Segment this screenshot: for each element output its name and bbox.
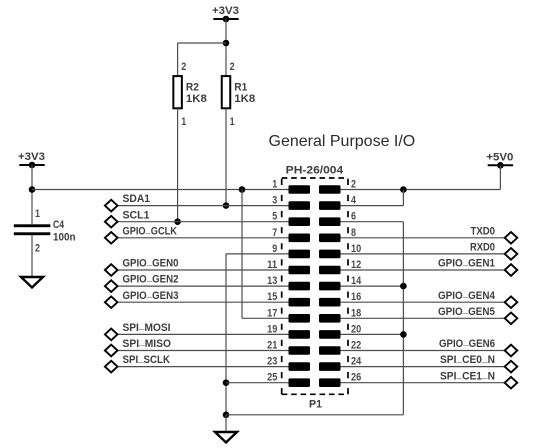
junction gnd bottom [223,412,230,419]
svg-text:15: 15 [267,291,277,303]
connector P1 dashed outline [282,178,348,394]
svg-text:1K8: 1K8 [186,93,207,105]
svg-text:2: 2 [35,243,40,255]
wire pin4 [341,205,404,207]
port diamond GPIO_GEN1 [505,264,518,276]
junction pin20 join [400,331,407,338]
svg-text:5: 5 [272,211,277,223]
svg-text:1: 1 [35,208,40,220]
svg-text:R1: R1 [234,82,247,94]
svg-text:18: 18 [351,307,361,319]
svg-text:PH-26/004: PH-26/004 [286,165,344,177]
svg-text:3: 3 [272,195,277,207]
wire R1 bottom to SDA1 [225,108,227,205]
port diamond GPIO_GCLK [105,232,118,244]
svg-text:SPI_SCLK: SPI_SCLK [123,352,171,366]
power symbol +3V3 top pin dot [223,16,230,23]
wire pin17 [242,317,289,319]
P1 pad pin 8 [319,234,341,243]
svg-text:8: 8 [351,227,356,239]
wire pin2 to +5V0 [341,189,501,191]
svg-text:14: 14 [351,275,361,287]
svg-text:SPI_CE1_N: SPI_CE1_N [440,368,495,382]
wire C4 to ground [31,235,33,277]
P1 pad pin 9 [289,250,311,259]
wire SDA1 [117,205,288,207]
wire pin9 gnd [226,253,289,255]
P1 pad pin 4 [319,201,341,210]
svg-text:24: 24 [351,356,361,368]
wire GPIO_GEN3 [117,301,288,303]
port diamond SPI_SCLK [105,361,118,373]
wire GPIO_GEN0 [117,269,288,271]
svg-text:17: 17 [267,307,277,319]
svg-text:General Purpose I/O: General Purpose I/O [269,133,416,150]
P1 pad pin 23 [289,362,311,371]
resistor R2 [173,61,207,128]
port diamond GPIO_GEN3 [105,296,118,308]
svg-text:9: 9 [272,243,277,255]
svg-text:P1: P1 [309,399,322,411]
port diamond GPIO_GEN2 [105,280,118,292]
P1 pad pin 26 [319,378,341,387]
port diamond SPI_MISO [105,345,118,357]
P1 pad pin 7 [289,234,311,243]
P1 pad pin 10 [319,250,341,259]
capacitor C4 [14,208,76,255]
wire row1 3V3 [32,189,289,191]
junction 3V3-row1 [29,186,36,193]
wire 3V3 riser to pin17 [241,190,243,319]
P1 pad pin 1 [289,185,311,194]
wire SPI_CE1_N [341,382,505,384]
P1 pad pin 20 [319,330,341,339]
P1 pad pin 16 [319,298,341,307]
wire GPIO_GEN6 [341,350,505,352]
wire GPIO_GEN2 [117,285,288,287]
svg-text:SDA1: SDA1 [123,193,151,205]
svg-text:1: 1 [272,179,277,191]
svg-text:16: 16 [351,291,361,303]
svg-text:1K8: 1K8 [234,93,255,105]
junction 5V pin4 join [400,186,407,193]
svg-text:21: 21 [267,340,277,352]
svg-text:20: 20 [351,323,361,335]
power symbol +5V0 bar [488,164,513,166]
junction pin25 gnd join [223,379,230,386]
port diamond SPI_MOSI [105,329,118,341]
wire +3V3 to R1 top [225,19,227,76]
P1 pad pin 12 [319,266,341,275]
wire pin14 gnd [341,285,404,287]
svg-text:SCL1: SCL1 [123,209,150,221]
svg-text:6: 6 [351,211,356,223]
svg-text:22: 22 [351,340,361,352]
svg-text:+5V0: +5V0 [486,151,513,163]
P1 pad pin 25 [289,378,311,387]
power symbol +3V3 top bar [213,18,238,20]
port diamond TXD0 [505,232,518,244]
wire left gnd bus [225,254,227,415]
junction pin14 join [400,283,407,290]
svg-text:4: 4 [351,195,356,207]
svg-text:2: 2 [230,61,235,73]
P1 pad pin 19 [289,330,311,339]
junction R2-SCL1 [174,218,181,225]
ground symbol bottom [215,432,237,443]
wire branch to R2 [178,42,226,44]
svg-text:23: 23 [267,356,277,368]
svg-text:12: 12 [351,259,361,271]
P1 pad pin 15 [289,298,311,307]
P1 pad pin 5 [289,217,311,226]
svg-text:25: 25 [267,372,277,384]
P1 pad pin 13 [289,282,311,291]
svg-text:R2: R2 [186,82,199,94]
junction R1-SDA1 [223,202,230,209]
P1 pad pin 6 [319,217,341,226]
wire pin4 riser [402,190,404,206]
svg-text:7: 7 [272,227,277,239]
wire pin6 gnd [341,221,404,223]
ground symbol left [21,277,43,288]
wire SCL1 [117,221,288,223]
svg-text:SPI_MOSI: SPI_MOSI [123,320,171,334]
junction R1/R2 branch [223,40,230,47]
port diamond GPIO_GEN4 [505,296,518,308]
svg-text:11: 11 [267,259,277,271]
svg-text:+3V3: +3V3 [18,151,45,163]
P1 pad pin 21 [289,346,311,355]
svg-text:1: 1 [181,116,186,128]
svg-text:RXD0: RXD0 [470,242,495,254]
svg-text:13: 13 [267,275,277,287]
svg-text:C4: C4 [53,219,65,231]
P1 pad pin 14 [319,282,341,291]
port diamond RXD0 [505,248,518,260]
resistor R1 [222,61,256,128]
wire TXD0 [341,237,505,239]
wire pin25 [226,382,289,384]
svg-text:26: 26 [351,372,361,384]
svg-text:SPI_CE0_N: SPI_CE0_N [440,352,495,366]
svg-text:1: 1 [230,116,235,128]
wire +5V0 down [499,165,501,189]
wire SPI_SCLK [117,366,288,368]
wire to bottom ground [225,415,227,432]
wire right gnd bus [402,222,404,415]
port diamond SPI_CE0_N [505,361,518,373]
wire SPI_MOSI [117,333,288,335]
svg-text:2: 2 [351,179,356,191]
svg-text:2: 2 [181,61,186,73]
port diamond GPIO_GEN0 [105,264,118,276]
power symbol +5V0 pin dot [497,162,504,169]
wire GPIO_GCLK [117,237,288,239]
wire bottom gnd bus [226,414,403,416]
wire GPIO_GEN4 [341,301,505,303]
junction 3V3 pin17 branch [239,186,246,193]
wire pin20 gnd [341,333,404,335]
wire SPI_CE0_N [341,366,505,368]
power symbol +3V3 left pin dot [29,162,36,169]
P1 pad pin 17 [289,314,311,323]
svg-text:+3V3: +3V3 [212,5,239,17]
power symbol +3V3 left bar [19,164,44,166]
port diamond SDA1 [105,200,118,212]
P1 pad pin 24 [319,362,341,371]
port diamond GPIO_GEN6 [505,345,518,357]
P1 pad pin 3 [289,201,311,210]
svg-text:19: 19 [267,323,277,335]
svg-text:10: 10 [351,243,361,255]
port diamond SCL1 [105,216,118,228]
wire +3V3 left down to C4 [31,165,33,224]
P1 pad pin 22 [319,346,341,355]
svg-text:SPI_MISO: SPI_MISO [123,336,172,350]
P1 pad pin 18 [319,314,341,323]
wire SPI_MISO [117,350,288,352]
wire GPIO_GEN1 [341,269,505,271]
wire to R2 top [177,43,179,76]
wire R2 bottom to SCL1 [177,108,179,221]
port diamond SPI_CE1_N [505,377,518,389]
wire RXD0 [341,253,505,255]
svg-text:100n: 100n [53,232,76,244]
P1 pad pin 11 [289,266,311,275]
P1 pad pin 2 [319,185,341,194]
svg-text:TXD0: TXD0 [471,225,496,237]
wire GPIO_GEN5 [341,317,505,319]
port diamond GPIO_GEN5 [505,313,518,325]
